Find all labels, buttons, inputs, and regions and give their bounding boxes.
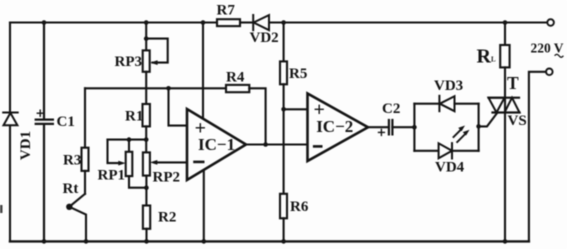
wire left border VD1 branch lower bbox=[9, 125, 11, 241]
resistor R4 bbox=[226, 85, 249, 92]
C1 plus polarity mark bbox=[37, 110, 43, 116]
junction dot R1 bottom node bbox=[144, 137, 149, 142]
LED emission arrow 2 bbox=[457, 133, 466, 142]
svg-text:R5: R5 bbox=[289, 66, 307, 82]
junction dot RP1 top bbox=[127, 137, 132, 142]
svg-text:R3: R3 bbox=[63, 153, 81, 169]
wire IC-1 noninverting input bbox=[169, 88, 188, 125]
svg-text:T: T bbox=[507, 73, 519, 93]
wire IC-1 V+ supply bbox=[202, 23, 204, 119]
svg-text:R6: R6 bbox=[290, 199, 309, 215]
junction C1 top on rail bbox=[42, 20, 47, 25]
RP1 wiper loop wire bbox=[108, 140, 119, 164]
wire top rail left segment bbox=[10, 21, 217, 23]
C2 plus polarity mark bbox=[379, 129, 385, 135]
junction dot RP1/RP2 bottom node bbox=[144, 185, 149, 190]
wire bridge left side bbox=[413, 104, 415, 151]
svg-text:C1: C1 bbox=[57, 114, 75, 130]
wire R3 branch down bbox=[84, 88, 86, 147]
resistor R6 bbox=[280, 194, 287, 219]
svg-text:IC−2: IC−2 bbox=[316, 117, 353, 136]
junction dot bridge right node bbox=[476, 124, 481, 129]
svg-text:V: V bbox=[554, 41, 564, 56]
wire RP1/RP2 top junction horizontal bbox=[108, 139, 147, 141]
resistor R5 bbox=[280, 61, 287, 84]
junction RL branch on top rail bbox=[503, 20, 508, 25]
resistor R3 bbox=[82, 148, 89, 171]
svg-text:VS: VS bbox=[508, 113, 527, 129]
wire top rail right segment bbox=[269, 21, 547, 23]
wire R4 right to output node bbox=[249, 88, 265, 144]
potentiometer RP3 body bbox=[143, 50, 150, 71]
wire R3 to Rt bbox=[84, 171, 86, 194]
potentiometer RP1 body bbox=[126, 152, 133, 176]
IC-2 inverting input minus symbol bbox=[313, 145, 323, 148]
junction R5 branch on top rail bbox=[281, 20, 286, 25]
resistor R2 bbox=[143, 206, 150, 229]
svg-text:R4: R4 bbox=[226, 69, 245, 85]
wire bridge top branch right bbox=[455, 103, 479, 105]
wire left border VD1 branch upper bbox=[9, 23, 11, 113]
svg-text:VD2: VD2 bbox=[250, 30, 279, 46]
junction dot IC-1 output node bbox=[263, 142, 268, 147]
junction dot bridge mid left bbox=[166, 86, 171, 91]
junction dot IC-2 plus input node bbox=[281, 107, 286, 112]
triac VS bbox=[489, 98, 520, 113]
terminal circle upper bbox=[547, 19, 554, 26]
RP2 wiper arrowhead bbox=[150, 160, 157, 165]
junction Rt branch on bottom rail bbox=[84, 239, 89, 244]
svg-text:220: 220 bbox=[531, 41, 552, 56]
wire RP1 bottom bbox=[129, 176, 146, 188]
op-amp IC-1 bbox=[187, 109, 246, 180]
wire R6 to bottom rail bbox=[283, 218, 285, 241]
svg-text:RP3: RP3 bbox=[115, 54, 143, 70]
potentiometer RP2 body bbox=[143, 152, 150, 175]
junction triac on bottom rail bbox=[503, 239, 508, 244]
wire R2 to bottom rail bbox=[145, 229, 147, 242]
IC-1 inverting input minus symbol bbox=[193, 161, 204, 164]
svg-text:R2: R2 bbox=[158, 209, 176, 225]
RP1 wiper arrowhead bbox=[118, 161, 125, 166]
diode VD3 bbox=[439, 96, 454, 111]
wire main divider chain top bbox=[145, 23, 147, 51]
RP3 wiper arrowhead bbox=[150, 60, 157, 65]
wire lower terminal to bottom rail bbox=[529, 72, 546, 242]
junction IC-1 V+ on top rail bbox=[201, 20, 206, 25]
wire IC-2 noninverting input bbox=[284, 108, 308, 110]
svg-text:R7: R7 bbox=[217, 3, 236, 19]
wire R5 branch top bbox=[283, 23, 285, 62]
wire triac main vertical bbox=[504, 67, 506, 241]
wire RL branch top bbox=[504, 23, 506, 46]
junction dot bridge left node bbox=[412, 125, 417, 130]
wire bridge right side bbox=[478, 104, 480, 151]
wire IC-2 output to C2 bbox=[368, 126, 388, 128]
capacitor C1 bbox=[36, 23, 53, 242]
resistor R1 bbox=[143, 104, 150, 126]
wire C2 to bridge node bbox=[392, 126, 414, 128]
wire bottom rail bbox=[10, 240, 529, 242]
junction IC-1 V- on bottom rail bbox=[202, 239, 207, 244]
scan smudge left edge bbox=[0, 205, 3, 213]
wire RP2 bottom bbox=[145, 176, 147, 206]
op-amp IC-2 bbox=[308, 94, 369, 162]
wire IC-1 V- supply bbox=[203, 170, 205, 241]
junction R6 bottom on rail bbox=[281, 239, 286, 244]
junction RP3 branch on top rail bbox=[144, 20, 149, 25]
svg-text:VD3: VD3 bbox=[434, 78, 463, 94]
svg-text:RP1: RP1 bbox=[98, 167, 126, 183]
svg-text:C2: C2 bbox=[382, 101, 400, 117]
wire bridge top branch left bbox=[414, 103, 439, 105]
diode VD4 bbox=[439, 143, 452, 158]
wire bridge bottom branch left bbox=[414, 150, 438, 152]
wire bridge bottom branch right bbox=[452, 150, 479, 152]
junction C1 bottom on rail bbox=[42, 239, 47, 244]
terminal circle lower bbox=[546, 69, 553, 76]
RP3 wiper loop wire bbox=[146, 39, 168, 63]
svg-text:VD4: VD4 bbox=[435, 160, 465, 176]
diode VD2 bbox=[253, 15, 269, 30]
svg-text:IC−1: IC−1 bbox=[198, 135, 235, 154]
junction dot RP3 wiper tap bbox=[144, 36, 149, 41]
svg-text:Rt: Rt bbox=[63, 181, 79, 197]
thermistor Rt bead bbox=[66, 204, 72, 210]
wire triac gate bbox=[479, 113, 498, 127]
thermistor Rt kink wire bbox=[69, 194, 86, 242]
resistor R7 bbox=[217, 19, 240, 26]
LED emission arrow 1 bbox=[454, 129, 462, 137]
junction R2 bottom on rail bbox=[144, 239, 149, 244]
wire R5 to R6 bbox=[283, 84, 285, 194]
wire RP1 top bbox=[128, 140, 130, 152]
wire IC-1 output to IC-2 inverting input bbox=[246, 143, 308, 145]
svg-text:VD1: VD1 bbox=[18, 131, 34, 160]
svg-text:RP2: RP2 bbox=[153, 169, 181, 185]
wire bridge-top horizontal (R3 top to R4) bbox=[85, 87, 226, 89]
wire R1 to RP1/RP2 node bbox=[145, 126, 147, 152]
wire RP3 to R1 bbox=[145, 72, 147, 104]
resistor RL bbox=[500, 45, 509, 67]
diode VD1 bbox=[3, 113, 18, 126]
wire top rail mid segment (R7 to VD2) bbox=[240, 21, 253, 23]
svg-text:R1: R1 bbox=[125, 109, 143, 125]
wire IC-1 inverting input with RP2 wiper arrow bbox=[157, 161, 187, 163]
capacitor C2 bbox=[389, 120, 393, 134]
